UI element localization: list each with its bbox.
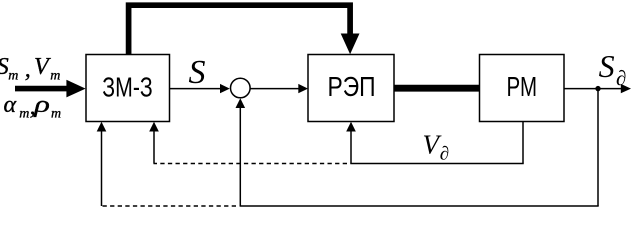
block ZM-3 [86, 55, 170, 122]
thick wire REP to RM [394, 85, 480, 92]
arrowhead into REP left [298, 84, 308, 93]
svg-text:S∂: S∂ [599, 48, 627, 90]
arrowhead into ZM-3 bottom right [149, 122, 159, 132]
wire: vertical up to summing junction [239, 107, 241, 206]
svg-text:ЗМ-З: ЗМ-З [102, 71, 153, 102]
svg-text:РЭП: РЭП [328, 71, 376, 102]
block REP [308, 55, 394, 122]
wire: Vd horizontal dashed [154, 163, 348, 165]
junction dot on output wire [595, 86, 600, 91]
svg-text:S: S [189, 54, 206, 91]
svg-text:V∂: V∂ [423, 130, 450, 165]
wire: vertical up into REP bottom [350, 131, 352, 164]
arrowhead into summing junction [220, 84, 230, 93]
thick feedback wire from ZM-3 top to REP top [129, 5, 351, 54]
wire: RM bottom down [522, 122, 524, 164]
arrowhead into REP top [341, 34, 360, 55]
arrowhead into REP bottom [346, 122, 356, 132]
wire: bottom horizontal dashed [101, 205, 236, 207]
wire: vertical up to ZM-3 bottom (left) [101, 131, 103, 207]
svg-text:РМ: РМ [507, 71, 538, 102]
wire ZM-3 to summing junction [170, 88, 222, 90]
arrowhead into ZM-3 bottom left [97, 122, 107, 132]
wire: Vd horizontal solid [350, 163, 523, 165]
wire summing junction to REP [250, 88, 299, 90]
thick input wire [15, 86, 68, 92]
wire: output junction down [597, 89, 599, 206]
wire: bottom horizontal solid [240, 205, 599, 207]
arrowhead into summing junction bottom [236, 98, 246, 108]
summing junction [231, 78, 251, 98]
arrowhead input into ZM-3 [66, 80, 85, 98]
svg-text:αm,ρm: αm,ρm [4, 92, 62, 122]
arrowhead output right [621, 84, 631, 93]
output wire from RM [564, 88, 623, 90]
wire: vertical up to ZM-3 bottom (right) [153, 131, 155, 164]
block RM [480, 55, 565, 122]
svg-text:Sm,Vm: Sm,Vm [0, 54, 60, 84]
